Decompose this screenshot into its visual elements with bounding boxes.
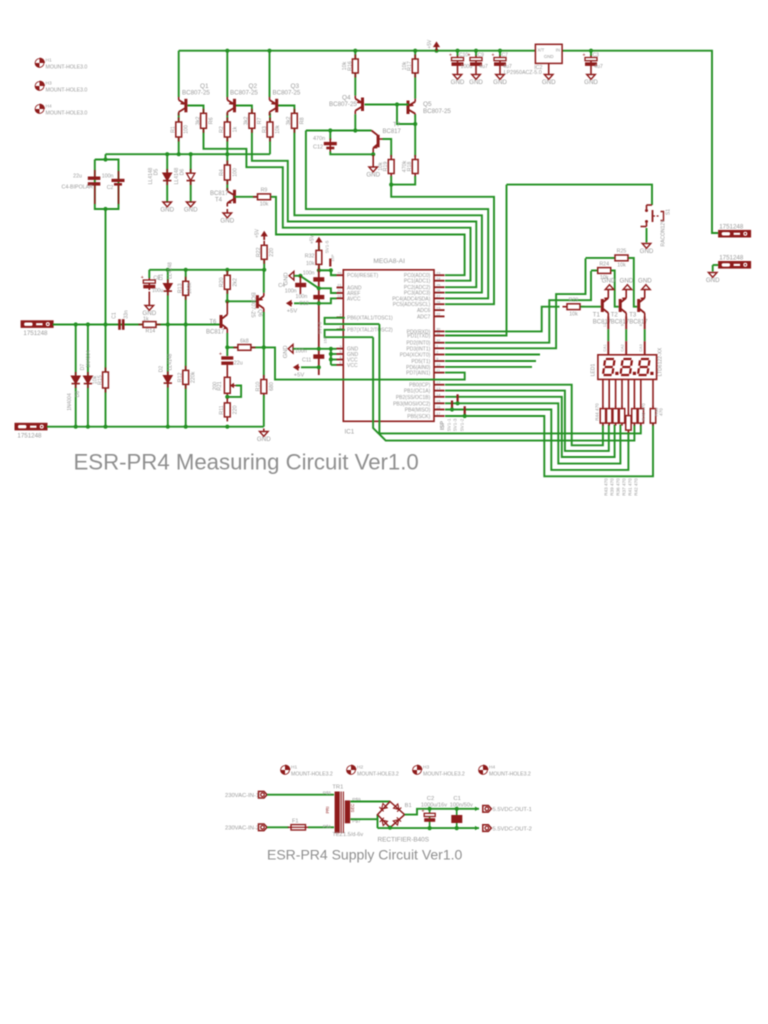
wire cap stub [475,51,477,56]
wire 6k8 link [227,346,263,348]
wire PD4 [445,354,540,356]
ground (C9) [472,68,481,80]
regulator IC2 LP2950ACZ-5.0 [535,44,562,63]
capacitor C9 [468,53,483,68]
capacitor C13 [313,295,324,299]
wire node C12/T7 [306,130,372,132]
svg-text:+5V: +5V [287,308,298,314]
transistor T6 [220,301,228,333]
wire agnd stub [294,275,301,277]
svg-text:R19: R19 [383,162,389,172]
svg-text:R44 470: R44 470 [594,403,599,421]
svg-text:GND: GND [184,206,198,213]
wire S1 to ground [646,228,648,243]
junction [165,152,169,156]
svg-text:R20: R20 [219,277,225,287]
capacitor C3 [583,53,598,68]
ground (S1) [642,244,651,249]
svg-text:R13: R13 [178,283,184,293]
junction [455,826,459,830]
svg-text:MOUNT-HOLE3.2: MOUNT-HOLE3.2 [423,772,465,778]
svg-text:21: 21 [337,284,341,288]
wire Q6 emitter [263,270,265,293]
svg-text:D6: D6 [180,169,186,176]
svg-text:GND: GND [469,79,483,86]
svg-text:PB5(SCK): PB5(SCK) [407,414,430,420]
wire JP1 net [53,324,221,326]
wire D5 branch [166,154,168,202]
svg-text:LL4148: LL4148 [168,262,174,279]
capacitor C7 [492,53,507,68]
fuse F1 [288,825,308,830]
svg-text:PB2(SS/OC1B): PB2(SS/OC1B) [396,395,431,401]
resistor R5 (6k8) [233,345,255,351]
svg-text:GND: GND [584,79,598,86]
wire PB5 seg net [445,416,653,476]
ground (T3) [642,285,651,290]
ground (D6) [186,202,195,207]
wire mains N to fuse [267,826,289,828]
junction [428,807,432,811]
svg-text:+: + [449,53,452,59]
rectifier B1 RECTIFIER-B40S [378,802,405,828]
wire C4 block to JP1 net [105,209,107,325]
junction [184,322,188,326]
junction [389,183,393,187]
svg-text:GND: GND [366,171,380,178]
junction [456,401,460,405]
resistor segment R40 [626,413,631,433]
wire PB3 seg net [445,403,620,463]
supply +5V (R32) [315,237,322,246]
header SV1 pin stubs [452,394,465,415]
ground (T2) [623,285,632,290]
resistor R8 [292,109,298,133]
svg-text:4u7: 4u7 [594,64,603,70]
junction [428,826,432,830]
wire R15 branch [105,325,107,427]
resistor segment R39 [632,406,637,426]
wire S1 net [507,185,653,205]
svg-text:S1: S1 [666,209,672,215]
transistor Q2 [227,97,236,116]
svg-text:26: 26 [436,289,440,293]
svg-text:220: 220 [232,405,238,414]
svg-text:H4: H4 [46,104,52,110]
svg-text:SV1-1: SV1-1 [447,418,452,431]
svg-text:+5V: +5V [427,39,433,49]
svg-text:H1: H1 [46,58,52,64]
display LED1 LTD6122-XX body [598,355,657,380]
transformer TR1 [335,792,351,834]
svg-text:ISP: ISP [440,421,446,430]
svg-text:470n: 470n [313,136,325,142]
wire PD0 to R29 [445,307,560,332]
junction [103,207,107,211]
svg-text:4: 4 [339,356,341,360]
diode D8 [72,372,80,388]
mount hole H1 [35,58,45,68]
svg-text:6k8: 6k8 [240,339,249,345]
wire Q2 base net [236,106,477,288]
junction [589,49,593,53]
svg-text:TR1: TR1 [332,785,343,791]
wire Q1 base net [188,106,471,281]
junction [388,826,392,830]
svg-text:PB3(MOSI/OC2): PB3(MOSI/OC2) [393,401,431,407]
svg-text:D2: D2 [159,366,165,373]
ground (C7) [496,68,505,80]
svg-text:GND: GND [602,278,616,285]
wire X3 to ground [712,265,714,272]
svg-text:PRI: PRI [325,807,330,814]
svg-text:29: 29 [337,271,341,275]
junction [262,345,266,349]
svg-text:MOUNT-HOLE3.0: MOUNT-HOLE3.0 [46,65,88,71]
svg-text:R40 470: R40 470 [641,403,646,421]
connector 5.5VDC-OUT-1 [483,806,492,813]
wire R4 branch [226,154,228,190]
resistor segment R38 [638,406,643,426]
diode D7 [84,372,92,388]
svg-text:15P: 15P [330,254,335,261]
junction [329,357,333,361]
switch S1 RACON12 [641,205,664,227]
junction [225,299,229,303]
wire DC plus [405,809,479,815]
junction [166,268,170,272]
svg-text:PD1(TXD): PD1(TXD) [407,334,430,340]
svg-text:1751248: 1751248 [23,330,48,337]
connector [15,423,48,431]
svg-text:1751248: 1751248 [719,224,744,231]
svg-text:PD3(INT1): PD3(INT1) [406,346,430,352]
svg-text:32: 32 [436,339,440,343]
svg-text:28: 28 [436,300,440,304]
svg-text:BC807-25: BC807-25 [230,90,258,97]
junction [455,49,459,53]
transistor T3 [637,290,645,317]
svg-text:PC6(/RESET): PC6(/RESET) [347,273,378,279]
svg-text:5.5VDC-OUT-1: 5.5VDC-OUT-1 [493,807,532,813]
svg-text:10k: 10k [260,201,269,207]
wire D7 branch [87,325,89,427]
svg-text:SV1-3: SV1-3 [453,418,458,431]
svg-text:12: 12 [603,323,607,327]
ground (AGND) [289,272,294,281]
wire secondary top [350,801,390,803]
capacitor C4 (22u bipolar) [88,170,101,204]
junction arrows out [475,807,479,811]
wire R17 branch [414,51,416,99]
wire D8 branch [75,325,77,427]
svg-text:MOUNT-HOLE3.0: MOUNT-HOLE3.0 [46,111,88,117]
wire T6-Q6 base link [227,300,256,302]
svg-text:220k: 220k [191,371,197,383]
svg-text:ADC6: ADC6 [417,308,431,314]
capacitor C1 (100n/50v) [451,809,462,828]
svg-text:SV1-2: SV1-2 [460,418,465,431]
svg-text:PD7(AIN1): PD7(AIN1) [406,371,431,377]
svg-text:F1: F1 [292,819,299,825]
wire Q1 emitter [178,51,180,97]
svg-text:Q5: Q5 [423,101,432,108]
junction [450,407,454,411]
svg-text:5.5VDC-OUT-2: 5.5VDC-OUT-2 [493,827,532,833]
junction [166,425,170,429]
svg-text:R24: R24 [599,261,609,267]
svg-text:PB6(XTAL1/TOSC1): PB6(XTAL1/TOSC1) [347,315,393,321]
svg-text:R17: R17 [407,61,413,71]
wire R21 wiper loop [227,386,241,397]
transistor Q3 [270,97,279,116]
svg-text:20: 20 [337,289,341,293]
svg-text:GND: GND [638,278,652,285]
wire R24 left [591,270,597,272]
junction [86,425,90,429]
wire DC minus [378,827,480,829]
svg-text:C13: C13 [299,301,309,307]
junction [267,49,271,53]
ground (T7) [369,155,378,172]
wire XTAL1 loop [325,318,380,324]
diode D2 [164,372,172,388]
ground (C8) [145,292,154,311]
wire anode red2 [607,341,609,355]
resistor R20 [224,271,230,294]
resistor R18 [412,155,418,178]
potentiometer R21 [224,371,236,398]
wire mains L [267,794,334,796]
svg-text:18: 18 [337,295,341,299]
svg-text:+: + [492,53,495,59]
supply +5V (R22) [261,231,268,240]
svg-text:100n: 100n [296,294,308,300]
svg-text:H2: H2 [357,765,363,771]
svg-text:D8: D8 [75,391,81,398]
svg-text:17: 17 [436,412,440,416]
svg-text:BC807-25: BC807-25 [329,101,357,108]
junction [225,345,229,349]
svg-text:GND: GND [544,54,554,59]
wire gnd net [293,348,337,350]
svg-text:GND: GND [706,277,720,284]
svg-text:C7: C7 [502,53,509,59]
junction [329,347,333,351]
svg-text:+5V: +5V [309,234,315,244]
svg-text:10k: 10k [306,261,315,267]
resistor segment R37 [650,406,655,426]
junction [103,425,107,429]
resistor R19 [388,155,394,178]
junction [371,152,375,156]
svg-text:D1: D1 [159,274,165,281]
junction [317,347,321,351]
svg-text:MOUNT-HOLE3.0: MOUNT-HOLE3.0 [46,88,88,94]
svg-text:CA1: CA1 [603,344,607,351]
svg-text:R2: R2 [219,126,225,133]
svg-text:10: 10 [436,363,440,367]
connector 5.5VDC-OUT-2 [483,825,492,832]
resistor segment R41 [619,406,624,426]
junction [413,122,417,126]
wire R9 net to MCU [271,197,465,275]
svg-text:14: 14 [436,393,440,397]
svg-text:9: 9 [436,357,438,361]
svg-text:MOUNT-HOLE3.2: MOUNT-HOLE3.2 [291,772,333,778]
junction [166,322,170,326]
wire C4/C2 loop [95,160,119,210]
wire Q4 collector [354,114,356,130]
svg-text:MOUNT-HOLE3.2: MOUNT-HOLE3.2 [489,772,531,778]
svg-text:100n: 100n [102,174,114,180]
svg-text:100u: 100u [152,288,163,294]
svg-text:GND: GND [620,278,634,285]
wire PD5 [445,360,536,362]
svg-text:LP2950ACZ-5.0: LP2950ACZ-5.0 [504,70,542,76]
svg-text:R32: R32 [305,253,315,259]
svg-text:11: 11 [436,369,440,373]
resistor R11 [224,398,230,421]
svg-text:R15: R15 [98,375,104,385]
wire anode red [607,317,609,330]
svg-text:BC807-25: BC807-25 [182,90,210,97]
svg-text:R22: R22 [256,247,262,257]
svg-text:R37 470: R37 470 [622,478,627,496]
svg-text:R25: R25 [617,249,627,255]
resistor R13 [183,277,189,300]
wire agnd diagonal [300,276,318,288]
capacitor C11 [313,354,324,358]
header SV1-5 pin [329,259,331,267]
svg-text:PB4(MISO): PB4(MISO) [405,408,431,414]
transistor Q6 [256,293,264,312]
display digits 8.8.8. [603,359,615,375]
transistor T7 [372,131,383,155]
svg-text:ADC7: ADC7 [417,314,431,320]
resistor R6 [201,109,207,133]
capacitor C15 [313,277,324,281]
wire secondary bottom [350,818,377,820]
svg-text:GND: GND [142,310,156,317]
connector [21,320,54,328]
svg-text:H1: H1 [291,765,297,771]
junction [86,322,90,326]
wire PB1 seg net [445,391,609,451]
svg-text:R16: R16 [347,61,353,71]
wire anode red [644,317,646,330]
wire S1 to MCU PD1 [445,185,507,336]
wire +5v vcc [301,366,319,368]
ground (D5) [163,202,172,207]
mount hole H4 (supply) [479,765,489,775]
svg-text:GND: GND [451,79,465,86]
resistor segment R42 [613,406,618,426]
svg-text:100n/50v: 100n/50v [450,802,473,808]
wire Q1 collector [178,113,180,154]
svg-text:15P: 15P [323,336,328,343]
junction [189,152,193,156]
svg-text:R9: R9 [261,188,268,194]
junction [413,49,417,53]
wire Q6 collector [263,312,265,378]
svg-text:D5: D5 [154,169,160,176]
wire cap stub [457,51,459,56]
resistor R4 [224,161,230,185]
junction [353,49,357,53]
capacitor C4 (100n) [295,276,306,294]
wire C12 bottom [330,152,373,155]
svg-text:10k: 10k [275,125,281,134]
svg-text:R43 470: R43 470 [604,478,609,496]
junction [225,152,229,156]
wire Q4-Q5 base [365,104,409,106]
wire R13 branch [185,270,187,325]
diode D6 [187,169,195,185]
supply +5V (VCC) [293,364,300,371]
svg-text:H3: H3 [46,81,52,87]
junction [328,128,332,132]
svg-text:R10: R10 [256,382,262,392]
wire R24 to T2 [611,271,619,307]
svg-text:RACON12V: RACON12V [661,219,667,247]
wire PB0 seg net [445,385,603,446]
mount hole H1 (supply) [281,765,291,775]
junction [74,425,78,429]
resistor segment R44 [600,406,605,426]
wire C12 top lead [329,131,331,141]
svg-text:R42 470: R42 470 [634,478,639,496]
wire D6 branch [190,154,192,202]
svg-text:PD4(XCK/T0): PD4(XCK/T0) [400,353,431,359]
svg-text:R18: R18 [407,162,413,172]
junction [298,274,302,278]
svg-text:C12: C12 [313,145,323,151]
svg-text:IC1: IC1 [345,428,355,435]
wire T4 base [235,196,258,198]
svg-text:R4: R4 [219,169,225,176]
svg-text:C3: C3 [593,53,600,59]
wire gnd2 stub [331,353,337,355]
transistor Q4 [355,96,364,115]
svg-text:T2: T2 [611,313,619,319]
wire to C4 block [105,154,107,159]
junction [103,322,107,326]
wire Q3 base net [277,106,482,293]
mount hole H2 (supply) [347,765,357,775]
wire T7 base to R19 [383,139,392,157]
svg-text:T1: T1 [593,313,601,319]
wire fuse to transformer [308,826,334,828]
wire reference net [149,269,263,271]
svg-text:470: 470 [659,408,664,416]
junction [463,414,467,418]
wire cap stub [499,51,501,56]
wire R12 branch [185,325,187,427]
svg-text:H4: H4 [489,765,495,771]
resistor R22 [261,241,267,264]
svg-text:33n: 33n [124,310,130,319]
wire measuring bus [106,153,271,155]
svg-text:12: 12 [436,381,440,385]
svg-text:T4: T4 [215,198,223,204]
mount hole H4 [35,104,45,114]
resistor R32 [316,246,322,269]
wire display seg net A [379,324,634,441]
svg-text:VCC: VCC [347,363,358,369]
svg-text:T6: T6 [209,320,217,326]
svg-text:27: 27 [436,295,440,299]
